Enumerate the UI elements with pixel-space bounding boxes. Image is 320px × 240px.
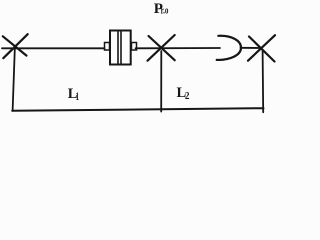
svg-text:r.o: r.o [161, 6, 169, 17]
svg-text:1: 1 [76, 91, 80, 103]
svg-text:2: 2 [185, 91, 190, 102]
